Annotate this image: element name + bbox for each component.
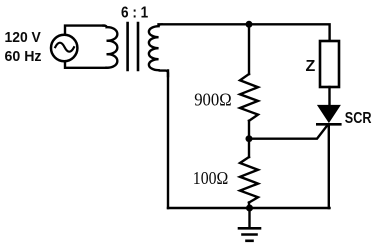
wire gate [249,126,327,139]
resistor R1 900 ohm [240,74,258,121]
node junction bottom [246,205,253,212]
svg-text:6 : 1: 6 : 1 [121,5,148,22]
wire primary loop [65,26,106,68]
wire top rail [159,24,330,40]
node junction top [246,21,253,28]
wire bottom rail [168,207,330,209]
node junction mid [246,135,253,142]
svg-text:100Ω: 100Ω [193,168,229,188]
wire from top node to R1 [248,24,250,74]
load Z (zener box) [320,41,339,87]
svg-text:SCR: SCR [345,110,372,127]
wire secondary return (left vertical) [167,71,169,209]
transformer core [128,23,138,70]
wire Z to SCR anode [328,87,330,106]
svg-text:900Ω: 900Ω [194,89,232,109]
resistor R2 100 ohm [240,157,258,203]
wire R2 to bottom rail [248,203,250,209]
label source value 120 V / 60 Hz [5,29,42,65]
AC source V1 [51,35,77,61]
svg-text:Z: Z [306,58,316,75]
transformer T1 secondary coil [149,24,168,76]
svg-text:120 V: 120 V [5,29,41,46]
wire R1 to mid node [248,121,250,139]
svg-text:60 Hz: 60 Hz [5,48,42,65]
wire mid node to R2 [248,139,250,157]
SCR thyristor [317,106,340,125]
wire SCR cathode to bottom rail [328,124,330,208]
transformer T1 primary coil [104,26,118,68]
ground [239,208,260,241]
